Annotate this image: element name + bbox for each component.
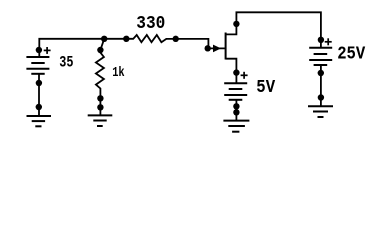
battery V1 plates [26, 57, 49, 74]
wire battery V2 bottom to ground [235, 100, 237, 121]
svg-text:35: 35 [59, 54, 73, 72]
node dot R2 right [173, 36, 179, 42]
resistor R2 330 zigzag [126, 35, 175, 42]
node junction dot on main wire [101, 36, 107, 42]
node dot below battery V2 upper [233, 103, 239, 109]
battery V3 plates [309, 48, 332, 65]
node dot below battery V1 [36, 80, 42, 86]
node dot R1 bottom lower [97, 104, 103, 110]
resistor R1 1k zigzag [96, 50, 104, 98]
wire battery V3 bottom to ground [320, 65, 322, 106]
battery V2 plates [224, 83, 247, 100]
wire junction to resistor R2 left terminal [104, 38, 126, 40]
node dot R2 left [123, 36, 129, 42]
wire from battery V1 top to junction [39, 39, 104, 57]
transistor Q1 channel bar [225, 33, 227, 60]
wire R2 right to transistor gate [176, 39, 209, 49]
battery V1 plus sign [44, 47, 51, 54]
node dot below battery V3 lower [318, 94, 324, 100]
battery V3 plus sign [325, 38, 332, 45]
node dot R1 top [97, 47, 103, 53]
gate lead wire [208, 47, 225, 49]
transistor Q1 source lead down to battery V2 [226, 59, 237, 84]
wire battery V1 bottom to ground [38, 74, 40, 116]
svg-text:1k: 1k [112, 65, 125, 81]
ground (below R1) [88, 115, 113, 126]
transistor Q1 gate arrow [213, 45, 221, 53]
node dot at gate [205, 45, 211, 51]
node dot below battery V2 lower [233, 109, 239, 115]
node dot on drain wire [233, 21, 239, 27]
wire junction down to resistor R1 top [100, 39, 104, 50]
node dot battery V2 top [233, 69, 239, 75]
ground (below V3) [308, 106, 333, 117]
ground (below V2) [223, 121, 249, 132]
svg-text:330: 330 [136, 13, 165, 34]
wire R1 bottom to ground [99, 98, 101, 115]
node dot below battery V3 upper [318, 70, 324, 76]
ground (left, below V1) [27, 116, 52, 126]
transistor Q1 drain lead and top net wire to battery V3 [226, 12, 321, 47]
node dot R1 bottom upper [97, 95, 103, 101]
battery V2 plus sign [241, 72, 248, 79]
svg-text:25V: 25V [337, 45, 365, 65]
node dot above left ground [36, 104, 42, 110]
node dot battery V3 top [318, 37, 324, 43]
node dot battery V1 top [36, 47, 42, 53]
svg-text:5V: 5V [256, 78, 275, 98]
